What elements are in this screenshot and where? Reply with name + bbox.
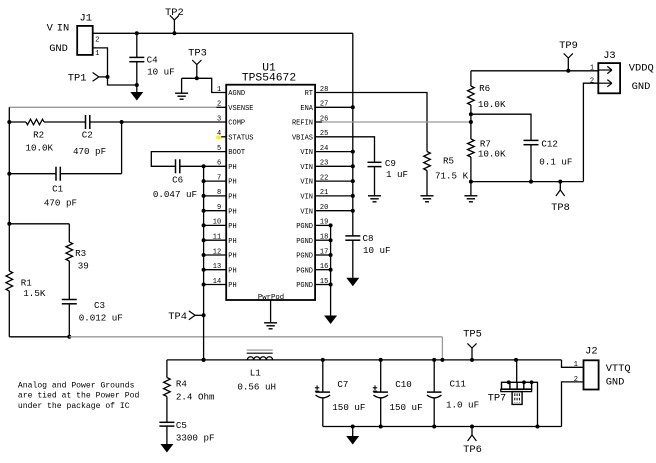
svg-text:2.4 Ohm: 2.4 Ohm	[176, 392, 215, 403]
svg-text:R6: R6	[479, 83, 490, 94]
svg-text:10.0K: 10.0K	[26, 143, 54, 154]
svg-text:150 uF: 150 uF	[390, 402, 423, 413]
svg-text:L1: L1	[250, 367, 262, 378]
svg-text:PGND: PGND	[296, 238, 313, 246]
svg-text:0.012 uF: 0.012 uF	[79, 312, 123, 323]
svg-text:VDDQ: VDDQ	[629, 63, 654, 75]
svg-text:V: V	[47, 23, 54, 35]
svg-text:C10: C10	[395, 379, 412, 390]
svg-text:COMP: COMP	[228, 120, 245, 128]
svg-text:under the package of IC: under the package of IC	[18, 402, 130, 411]
svg-text:STATUS: STATUS	[228, 134, 253, 142]
svg-text:PH: PH	[228, 223, 236, 231]
svg-text:VIN: VIN	[300, 208, 313, 216]
svg-text:VSENSE: VSENSE	[228, 105, 253, 113]
svg-text:0.047 uF: 0.047 uF	[153, 189, 197, 200]
svg-text:J3: J3	[603, 50, 615, 62]
svg-text:PGND: PGND	[296, 267, 313, 275]
svg-text:C5: C5	[176, 420, 187, 431]
svg-text:TP4: TP4	[168, 311, 187, 323]
svg-text:VIN: VIN	[300, 179, 313, 187]
svg-text:PH: PH	[228, 208, 236, 216]
svg-text:IN: IN	[57, 23, 69, 35]
svg-text:1: 1	[95, 50, 99, 58]
svg-text:GND: GND	[632, 81, 651, 93]
svg-text:2: 2	[95, 36, 99, 44]
svg-text:TP1: TP1	[68, 72, 87, 84]
svg-text:are tied at the Power Pod: are tied at the Power Pod	[18, 392, 140, 401]
svg-text:PGND: PGND	[296, 223, 313, 231]
svg-text:PH: PH	[228, 282, 236, 290]
svg-text:VIN: VIN	[300, 164, 313, 172]
svg-text:RT: RT	[305, 90, 313, 98]
svg-text:REFIN: REFIN	[292, 120, 313, 128]
svg-text:PH: PH	[228, 253, 236, 261]
svg-text:C6: C6	[172, 175, 183, 186]
svg-text:PH: PH	[228, 179, 236, 187]
svg-text:C7: C7	[337, 379, 348, 390]
svg-text:C12: C12	[541, 138, 558, 149]
svg-text:10 uF: 10 uF	[363, 245, 391, 256]
svg-text:GND: GND	[49, 43, 68, 55]
svg-text:1.0 uF: 1.0 uF	[446, 400, 479, 411]
svg-text:10.0K: 10.0K	[478, 99, 506, 110]
svg-text:C3: C3	[94, 300, 105, 311]
svg-text:ENA: ENA	[300, 105, 313, 113]
svg-text:C1: C1	[52, 184, 64, 195]
svg-text:J1: J1	[80, 13, 92, 25]
svg-text:TP9: TP9	[559, 40, 578, 52]
svg-text:C9: C9	[385, 158, 396, 169]
svg-text:10 uF: 10 uF	[147, 67, 175, 78]
svg-text:3300 pF: 3300 pF	[176, 433, 215, 444]
svg-text:71.5 K: 71.5 K	[435, 170, 469, 181]
svg-text:TP8: TP8	[551, 202, 570, 214]
svg-text:TP6: TP6	[463, 444, 482, 456]
svg-text:R1: R1	[21, 277, 33, 288]
svg-text:TPS54672: TPS54672	[242, 73, 296, 85]
svg-text:470 pF: 470 pF	[73, 146, 106, 157]
svg-text:0.1 uF: 0.1 uF	[539, 157, 572, 168]
svg-text:1 uF: 1 uF	[386, 169, 408, 180]
svg-text:1: 1	[217, 86, 221, 94]
svg-text:PH: PH	[228, 267, 236, 275]
svg-text:2: 2	[574, 376, 578, 384]
svg-text:VIN: VIN	[300, 149, 313, 157]
svg-text:1.5K: 1.5K	[23, 288, 46, 299]
svg-text:1: 1	[574, 361, 578, 369]
svg-text:PGND: PGND	[296, 253, 313, 261]
svg-text:PH: PH	[228, 164, 236, 172]
svg-text:VBIAS: VBIAS	[292, 134, 313, 142]
svg-text:TP2: TP2	[165, 7, 184, 19]
svg-text:PGND: PGND	[296, 282, 313, 290]
svg-text:BOOT: BOOT	[228, 149, 245, 157]
svg-text:R3: R3	[75, 248, 86, 259]
svg-text:1: 1	[590, 65, 594, 73]
svg-text:AGND: AGND	[228, 90, 245, 98]
svg-text:TP3: TP3	[188, 48, 207, 60]
svg-text:C2: C2	[82, 129, 93, 140]
svg-text:GND: GND	[606, 377, 625, 389]
svg-text:R4: R4	[176, 378, 188, 389]
svg-text:PH: PH	[228, 194, 236, 202]
svg-text:R5: R5	[443, 156, 454, 167]
svg-text:0.56 uH: 0.56 uH	[237, 382, 276, 393]
svg-text:TP5: TP5	[463, 329, 482, 341]
svg-text:150 uF: 150 uF	[332, 402, 365, 413]
svg-text:VTTQ: VTTQ	[606, 363, 631, 375]
svg-text:Analog and Power Grounds: Analog and Power Grounds	[18, 382, 135, 391]
svg-text:PH: PH	[228, 238, 236, 246]
svg-text:39: 39	[78, 260, 89, 271]
svg-text:2: 2	[590, 78, 594, 86]
svg-text:VIN: VIN	[300, 194, 313, 202]
svg-text:C11: C11	[450, 379, 467, 390]
svg-text:470 pF: 470 pF	[44, 198, 77, 209]
svg-text:C8: C8	[363, 233, 374, 244]
svg-text:R2: R2	[33, 129, 44, 140]
svg-text:10.0K: 10.0K	[478, 149, 506, 160]
svg-text:J2: J2	[585, 346, 597, 358]
svg-text:C4: C4	[147, 55, 159, 66]
svg-text:TP7: TP7	[488, 392, 507, 404]
